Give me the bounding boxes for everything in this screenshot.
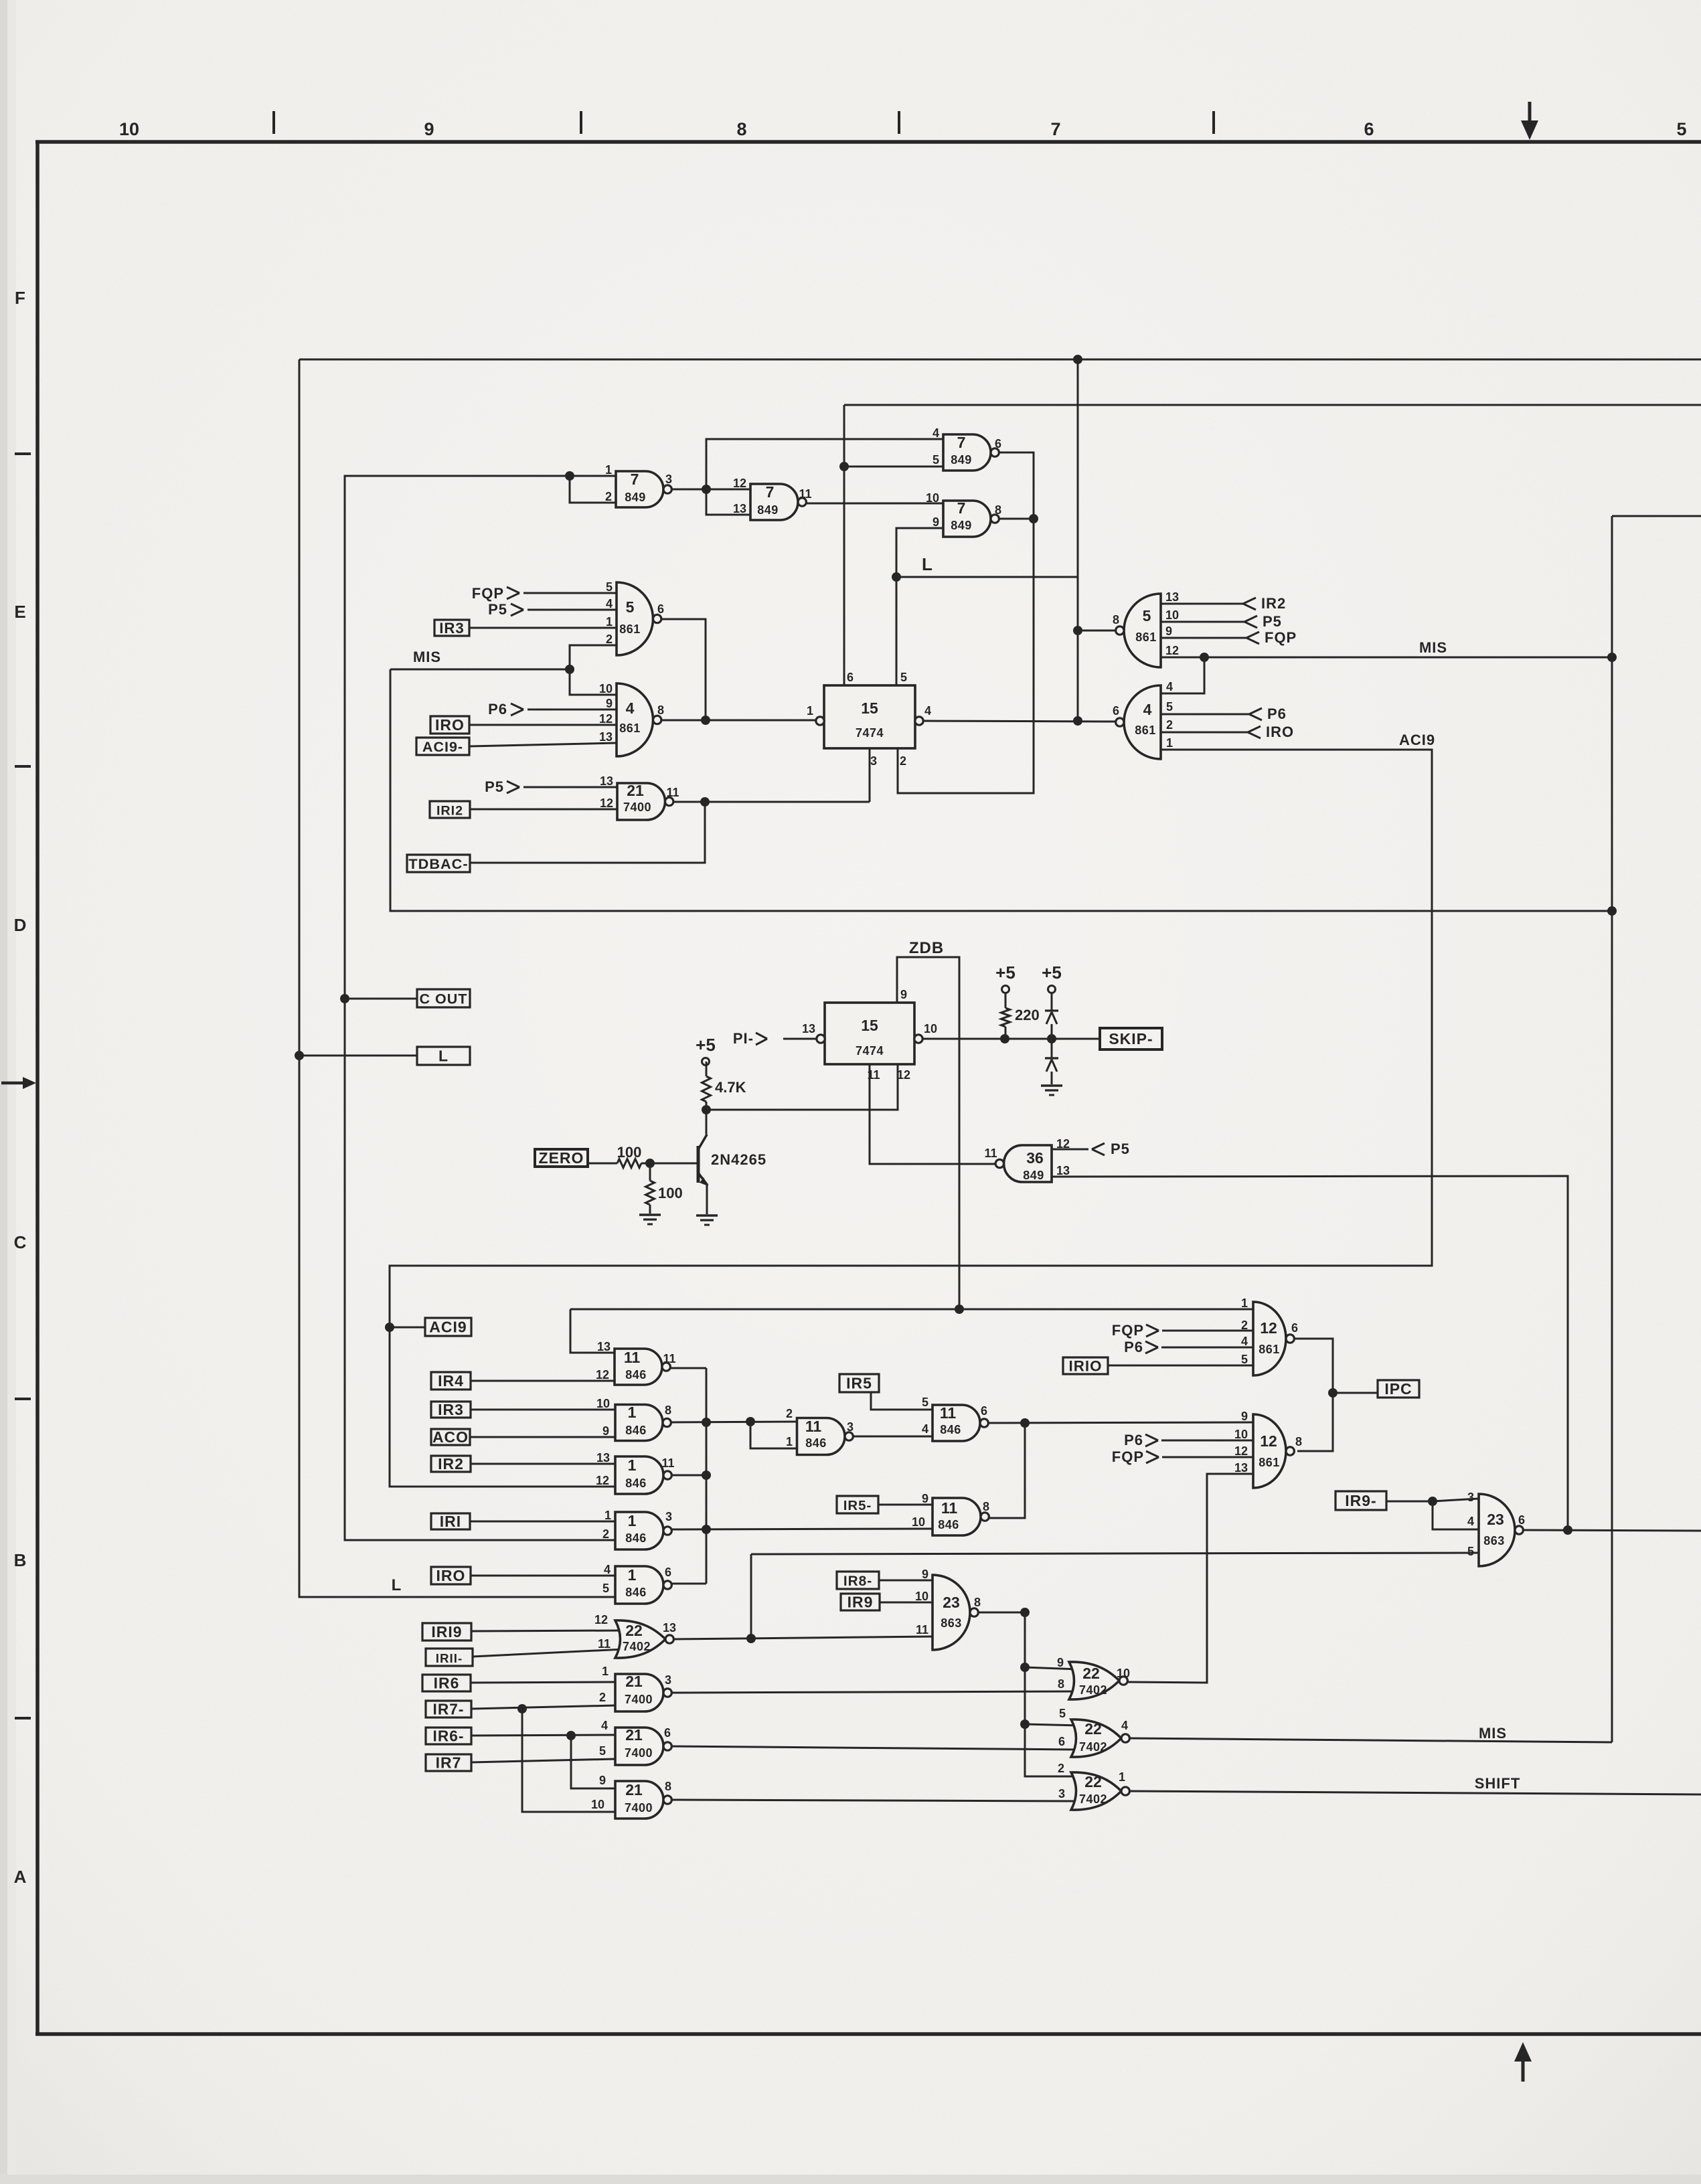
svg-text:22: 22 (1084, 1720, 1102, 1738)
svg-text:5: 5 (606, 580, 613, 594)
svg-text:3: 3 (1467, 1491, 1474, 1504)
svg-text:2: 2 (606, 633, 613, 646)
svg-text:9: 9 (606, 697, 613, 710)
svg-text:8: 8 (1058, 1677, 1064, 1691)
svg-text:8: 8 (974, 1596, 981, 1609)
svg-text:IRI2: IRI2 (436, 804, 463, 819)
svg-text:22: 22 (1082, 1665, 1100, 1682)
svg-text:+5: +5 (995, 962, 1016, 983)
svg-text:861: 861 (1259, 1343, 1280, 1356)
svg-text:9: 9 (599, 1774, 606, 1787)
svg-text:4: 4 (924, 704, 931, 718)
svg-text:8: 8 (983, 1500, 989, 1513)
svg-text:4: 4 (604, 1563, 611, 1576)
svg-text:36: 36 (1026, 1149, 1044, 1167)
svg-text:13: 13 (802, 1022, 815, 1035)
svg-text:846: 846 (625, 1368, 647, 1381)
svg-text:863: 863 (1483, 1534, 1505, 1547)
svg-text:IR6: IR6 (434, 1675, 460, 1692)
svg-text:P5: P5 (1263, 613, 1282, 630)
svg-text:15: 15 (861, 699, 878, 717)
svg-text:7474: 7474 (856, 726, 884, 740)
svg-text:IRO: IRO (1266, 724, 1294, 740)
svg-text:846: 846 (625, 1531, 647, 1545)
svg-text:IR9: IR9 (847, 1594, 874, 1611)
svg-text:4: 4 (601, 1719, 608, 1732)
svg-text:2: 2 (602, 1527, 609, 1541)
svg-text:6: 6 (981, 1404, 987, 1418)
svg-text:1: 1 (628, 1404, 637, 1421)
svg-text:2: 2 (605, 490, 612, 503)
svg-text:5: 5 (922, 1396, 928, 1409)
svg-text:7: 7 (766, 483, 775, 501)
svg-text:10: 10 (924, 1022, 937, 1035)
svg-text:+5: +5 (1042, 962, 1062, 983)
svg-text:849: 849 (625, 491, 646, 504)
svg-text:ACI9: ACI9 (429, 1319, 467, 1336)
svg-text:L: L (392, 1576, 402, 1594)
svg-text:9: 9 (922, 1492, 928, 1505)
svg-text:1: 1 (604, 1509, 611, 1522)
svg-text:2: 2 (1058, 1762, 1064, 1775)
svg-text:1: 1 (807, 704, 813, 718)
svg-text:9: 9 (602, 1424, 609, 1438)
svg-text:P5: P5 (485, 778, 504, 795)
svg-text:C: C (14, 1232, 27, 1252)
svg-text:21: 21 (625, 1673, 643, 1690)
svg-text:1: 1 (1166, 736, 1173, 750)
svg-text:6: 6 (1113, 704, 1119, 718)
svg-text:9: 9 (900, 988, 907, 1001)
svg-text:MIS: MIS (1479, 1725, 1507, 1742)
svg-text:849: 849 (951, 453, 972, 467)
svg-text:12: 12 (1260, 1432, 1277, 1450)
svg-text:PI-: PI- (733, 1030, 754, 1047)
svg-text:6: 6 (657, 602, 664, 616)
svg-text:1: 1 (628, 1512, 637, 1529)
svg-text:A: A (14, 1867, 27, 1887)
svg-text:11: 11 (598, 1637, 611, 1651)
svg-text:7400: 7400 (623, 801, 651, 814)
svg-text:4: 4 (1166, 680, 1173, 693)
svg-text:11: 11 (666, 786, 679, 799)
svg-text:849: 849 (1023, 1169, 1044, 1182)
svg-text:8: 8 (665, 1404, 671, 1417)
svg-text:5: 5 (933, 453, 939, 467)
svg-text:846: 846 (938, 1518, 959, 1531)
svg-text:P5: P5 (1111, 1141, 1130, 1157)
svg-text:IR5-: IR5- (843, 1498, 872, 1513)
svg-text:846: 846 (940, 1423, 961, 1436)
svg-text:IPC: IPC (1384, 1380, 1412, 1398)
svg-text:5: 5 (602, 1582, 609, 1595)
svg-text:9: 9 (933, 515, 939, 529)
svg-text:22: 22 (1084, 1773, 1102, 1790)
svg-text:9: 9 (922, 1568, 928, 1581)
svg-text:6: 6 (1518, 1513, 1525, 1527)
svg-text:13: 13 (663, 1621, 676, 1634)
svg-text:2: 2 (786, 1407, 793, 1420)
svg-text:4: 4 (626, 699, 635, 717)
svg-text:13: 13 (599, 730, 613, 744)
svg-text:11: 11 (940, 1404, 957, 1422)
svg-text:10: 10 (1165, 608, 1179, 622)
svg-text:863: 863 (941, 1616, 962, 1630)
svg-text:8: 8 (736, 119, 746, 139)
svg-text:8: 8 (665, 1780, 671, 1793)
svg-text:1: 1 (605, 463, 612, 477)
svg-text:FQP: FQP (1112, 1322, 1144, 1339)
svg-text:10: 10 (599, 682, 613, 695)
svg-text:IRO: IRO (435, 716, 465, 734)
svg-text:8: 8 (995, 503, 1001, 517)
svg-text:MIS: MIS (413, 649, 441, 665)
svg-text:IR7-: IR7- (433, 1701, 465, 1718)
svg-text:6: 6 (1291, 1321, 1298, 1335)
svg-text:11: 11 (663, 1352, 675, 1365)
svg-text:2: 2 (599, 1691, 606, 1704)
svg-text:12: 12 (1165, 644, 1179, 657)
svg-text:861: 861 (619, 622, 641, 636)
svg-text:7402: 7402 (1079, 1740, 1107, 1754)
svg-text:4: 4 (1467, 1515, 1474, 1528)
svg-text:7402: 7402 (1079, 1792, 1107, 1806)
svg-text:9: 9 (1165, 624, 1172, 638)
svg-text:2: 2 (900, 754, 906, 768)
svg-text:11: 11 (867, 1068, 880, 1082)
svg-text:3: 3 (1058, 1787, 1065, 1800)
svg-text:P5: P5 (488, 601, 507, 618)
svg-text:861: 861 (1135, 631, 1157, 644)
svg-text:11: 11 (799, 487, 811, 501)
svg-text:10: 10 (926, 491, 939, 505)
svg-text:7400: 7400 (625, 1746, 653, 1760)
svg-text:12: 12 (1260, 1319, 1277, 1337)
svg-text:11: 11 (624, 1349, 641, 1366)
svg-text:846: 846 (625, 1477, 647, 1490)
svg-text:7: 7 (957, 499, 966, 517)
svg-text:6: 6 (664, 1726, 671, 1740)
svg-text:5: 5 (1166, 700, 1173, 713)
svg-text:3: 3 (665, 1510, 672, 1523)
svg-text:6: 6 (1058, 1735, 1065, 1748)
svg-text:FQP: FQP (1112, 1448, 1144, 1465)
svg-text:L: L (922, 554, 933, 574)
svg-text:4: 4 (1143, 701, 1152, 718)
svg-text:12: 12 (1234, 1444, 1248, 1458)
svg-text:IR7: IR7 (436, 1754, 462, 1772)
svg-text:IR4: IR4 (438, 1372, 464, 1390)
svg-text:7402: 7402 (623, 1640, 651, 1653)
svg-text:12: 12 (596, 1368, 609, 1381)
svg-text:P6: P6 (1124, 1432, 1143, 1448)
svg-text:23: 23 (1487, 1511, 1504, 1528)
svg-text:7: 7 (631, 471, 639, 488)
svg-text:TDBAC-: TDBAC- (408, 855, 468, 872)
svg-text:5: 5 (626, 598, 635, 616)
svg-text:ACO: ACO (432, 1428, 469, 1446)
svg-text:21: 21 (625, 1726, 643, 1744)
svg-text:846: 846 (805, 1436, 827, 1450)
svg-text:21: 21 (627, 782, 644, 799)
svg-text:12: 12 (596, 1474, 609, 1487)
svg-text:849: 849 (951, 519, 972, 532)
svg-text:P6: P6 (1267, 705, 1287, 722)
svg-text:3: 3 (870, 754, 877, 768)
svg-text:12: 12 (733, 477, 746, 490)
svg-text:1: 1 (606, 615, 613, 628)
svg-text:IR2: IR2 (438, 1455, 464, 1473)
svg-text:5: 5 (599, 1744, 606, 1758)
svg-text:IR9-: IR9- (1345, 1492, 1376, 1509)
svg-text:ZDB: ZDB (909, 939, 944, 957)
svg-text:12: 12 (897, 1068, 910, 1082)
svg-text:IRO: IRO (436, 1567, 466, 1584)
svg-text:6: 6 (665, 1566, 671, 1579)
svg-text:861: 861 (619, 722, 641, 735)
svg-text:8: 8 (1113, 613, 1119, 626)
svg-text:13: 13 (600, 774, 613, 788)
svg-text:13: 13 (1165, 590, 1179, 604)
svg-text:9: 9 (1057, 1656, 1064, 1669)
svg-text:+5: +5 (696, 1035, 716, 1055)
svg-text:5: 5 (1059, 1707, 1066, 1720)
svg-text:13: 13 (596, 1451, 610, 1464)
svg-text:9: 9 (1241, 1410, 1248, 1423)
svg-text:7474: 7474 (856, 1044, 884, 1058)
svg-text:6: 6 (995, 437, 1001, 450)
svg-text:SKIP-: SKIP- (1109, 1030, 1153, 1047)
svg-text:12: 12 (599, 712, 613, 726)
svg-text:E: E (14, 602, 25, 622)
svg-text:7400: 7400 (625, 1693, 653, 1706)
svg-text:12: 12 (600, 796, 613, 810)
svg-text:FQP: FQP (1265, 629, 1297, 646)
svg-text:IRI: IRI (440, 1513, 461, 1530)
svg-text:861: 861 (1259, 1456, 1280, 1469)
svg-text:IR5: IR5 (846, 1375, 872, 1392)
svg-text:22: 22 (625, 1622, 643, 1639)
svg-text:5: 5 (1143, 607, 1151, 624)
svg-text:6: 6 (847, 671, 854, 684)
svg-text:12: 12 (594, 1613, 608, 1626)
svg-text:10: 10 (591, 1798, 604, 1811)
svg-text:11: 11 (805, 1418, 822, 1435)
svg-text:8: 8 (657, 703, 664, 717)
svg-text:13: 13 (733, 502, 746, 515)
svg-text:15: 15 (861, 1017, 878, 1034)
svg-text:ACI9: ACI9 (1399, 732, 1435, 748)
svg-text:23: 23 (943, 1594, 960, 1611)
svg-text:100: 100 (617, 1144, 642, 1161)
svg-text:3: 3 (847, 1420, 854, 1434)
svg-text:11: 11 (916, 1623, 928, 1636)
svg-text:6: 6 (1364, 119, 1374, 139)
svg-text:IR3: IR3 (438, 1401, 464, 1418)
svg-text:5: 5 (1676, 119, 1686, 139)
svg-text:C OUT: C OUT (420, 991, 468, 1007)
svg-text:1: 1 (1119, 1770, 1125, 1784)
svg-text:P6: P6 (488, 701, 507, 718)
svg-text:10: 10 (596, 1397, 610, 1410)
svg-text:849: 849 (757, 503, 779, 517)
svg-text:4: 4 (1241, 1335, 1248, 1348)
svg-text:9: 9 (424, 119, 434, 139)
svg-text:10: 10 (1234, 1428, 1248, 1441)
svg-text:F: F (15, 288, 25, 308)
svg-text:5: 5 (900, 671, 907, 684)
svg-text:1: 1 (628, 1566, 637, 1584)
svg-text:P6: P6 (1124, 1339, 1143, 1355)
svg-text:10: 10 (912, 1515, 925, 1529)
svg-text:SHIFT: SHIFT (1475, 1775, 1521, 1792)
svg-text:2: 2 (1166, 718, 1173, 732)
svg-text:846: 846 (625, 1424, 647, 1437)
svg-text:3: 3 (665, 1673, 671, 1687)
svg-text:7: 7 (1050, 119, 1060, 139)
svg-text:2N4265: 2N4265 (711, 1151, 766, 1168)
svg-text:11: 11 (941, 1499, 958, 1517)
svg-text:220: 220 (1015, 1007, 1040, 1023)
svg-text:21: 21 (625, 1781, 643, 1798)
svg-text:IR2: IR2 (1261, 595, 1286, 612)
svg-text:1: 1 (786, 1435, 793, 1448)
svg-text:13: 13 (597, 1340, 611, 1353)
svg-text:846: 846 (625, 1586, 647, 1599)
svg-text:1: 1 (1241, 1296, 1248, 1310)
svg-text:8: 8 (1295, 1435, 1302, 1448)
svg-text:L: L (438, 1047, 449, 1065)
svg-text:11: 11 (984, 1147, 997, 1160)
svg-text:5: 5 (1241, 1353, 1248, 1366)
svg-text:FQP: FQP (472, 585, 504, 602)
svg-text:IR6-: IR6- (433, 1728, 465, 1745)
svg-text:13: 13 (1056, 1164, 1070, 1177)
svg-text:4: 4 (1121, 1719, 1128, 1732)
svg-text:IR3: IR3 (439, 620, 465, 637)
svg-text:1: 1 (628, 1456, 637, 1474)
svg-text:D: D (14, 915, 27, 935)
svg-text:11: 11 (661, 1456, 674, 1470)
svg-text:B: B (14, 1550, 27, 1570)
svg-text:IRII-: IRII- (436, 1651, 463, 1665)
svg-text:IRI9: IRI9 (431, 1623, 462, 1641)
svg-text:2: 2 (1241, 1319, 1248, 1332)
svg-text:ZERO: ZERO (539, 1149, 584, 1167)
svg-text:10: 10 (1117, 1667, 1130, 1680)
svg-text:7400: 7400 (625, 1801, 653, 1815)
svg-text:861: 861 (1135, 724, 1156, 737)
svg-text:4: 4 (606, 597, 613, 610)
svg-text:10: 10 (915, 1590, 928, 1603)
svg-text:4: 4 (933, 426, 939, 440)
svg-text:IRIO: IRIO (1069, 1358, 1103, 1375)
svg-text:13: 13 (1234, 1461, 1248, 1475)
svg-text:MIS: MIS (1419, 639, 1447, 656)
svg-text:5: 5 (1467, 1545, 1474, 1558)
svg-text:100: 100 (658, 1185, 683, 1201)
svg-text:7: 7 (957, 434, 966, 451)
svg-text:4: 4 (922, 1422, 928, 1436)
svg-text:3: 3 (665, 473, 672, 486)
svg-text:12: 12 (1056, 1137, 1070, 1151)
svg-text:1: 1 (602, 1665, 609, 1678)
svg-text:10: 10 (119, 119, 139, 139)
svg-text:7402: 7402 (1079, 1683, 1107, 1697)
svg-text:4.7K: 4.7K (715, 1079, 746, 1096)
svg-text:ACI9-: ACI9- (422, 739, 463, 755)
svg-text:IR8-: IR8- (843, 1574, 872, 1589)
